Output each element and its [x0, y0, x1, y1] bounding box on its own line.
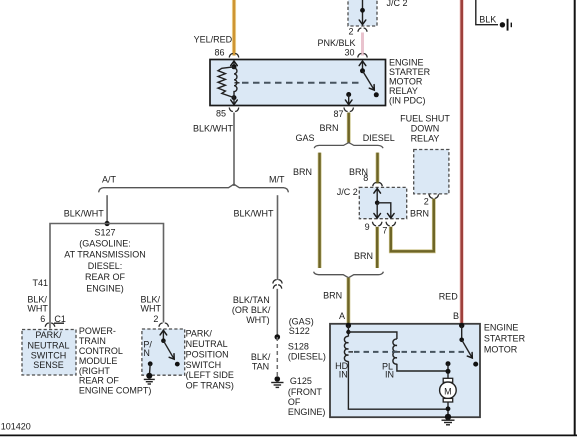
svg-text:BLK/TAN: BLK/TAN: [233, 295, 270, 305]
label ENGINE STARTER MOTOR: [484, 322, 526, 354]
svg-text:ENGINE): ENGINE): [288, 407, 326, 417]
svg-text:BRN: BRN: [323, 291, 342, 301]
svg-text:TAN: TAN: [252, 362, 269, 372]
svg-text:PARK/: PARK/: [35, 330, 62, 340]
svg-text:DIESEL:: DIESEL:: [88, 261, 123, 271]
starter switch from B: [459, 326, 478, 367]
svg-text:GAS: GAS: [295, 133, 314, 143]
svg-text:ENGINE: ENGINE: [389, 57, 424, 67]
label BLK/TAN (lower): [251, 352, 271, 372]
motor M: [440, 378, 457, 417]
label FUEL SHUT DOWN RELAY: [400, 114, 450, 144]
label POWERTRAIN CONTROL MODULE: [79, 326, 152, 396]
svg-text:NEUTRAL: NEUTRAL: [27, 340, 69, 350]
svg-text:MODULE: MODULE: [79, 356, 118, 366]
wire BRN from pin 7 to fuel relay: [391, 199, 434, 252]
svg-text:TRAIN: TRAIN: [79, 336, 106, 346]
svg-text:(OR BLK/: (OR BLK/: [232, 305, 271, 315]
svg-text:(FRONT: (FRONT: [288, 387, 322, 397]
wires inside middle J/C 2: [374, 189, 394, 219]
wire YEL/RED: [232, 0, 236, 56]
ground at starter motor: [442, 414, 455, 425]
svg-text:86: 86: [214, 47, 224, 57]
junction block J/C 2 (top): [348, 0, 377, 26]
P/N switch internals: [148, 330, 180, 376]
svg-text:BRN: BRN: [410, 208, 429, 218]
svg-text:85: 85: [216, 108, 226, 118]
inline connector on M/T wire: [273, 280, 282, 289]
svg-text:G125: G125: [290, 376, 312, 386]
svg-text:A/T: A/T: [102, 174, 117, 184]
svg-text:IN: IN: [385, 370, 394, 380]
svg-text:SWITCH: SWITCH: [31, 351, 67, 361]
connector C1 label: [54, 314, 66, 324]
label S127 block: [64, 227, 146, 293]
junction block J/C 2 (middle): [359, 187, 406, 218]
wire RED: [460, 0, 464, 324]
relay coil: [218, 64, 237, 100]
svg-text:ENGINE): ENGINE): [86, 283, 124, 293]
svg-text:STARTER: STARTER: [389, 67, 431, 77]
svg-text:OF: OF: [288, 397, 301, 407]
park/neutral switch sense box: [22, 330, 76, 376]
svg-text:M: M: [444, 386, 452, 396]
svg-text:BRN: BRN: [354, 251, 373, 261]
relay box: engine starter motor relay: [210, 60, 386, 106]
svg-text:BRN: BRN: [293, 167, 312, 177]
wire BLK/WHT from relay 85: [233, 113, 235, 187]
bottom wire node: [446, 406, 451, 411]
svg-text:FUEL SHUT: FUEL SHUT: [400, 114, 450, 124]
engine starter motor box: [330, 324, 480, 417]
wire BRN from relay 87: [347, 113, 351, 143]
svg-text:(DIESEL): (DIESEL): [288, 352, 326, 362]
splice S122/S128 node: [275, 334, 281, 340]
svg-text:REAR OF: REAR OF: [85, 272, 126, 282]
svg-text:2: 2: [424, 197, 429, 207]
HD coil bottom wire: [348, 361, 448, 409]
connector arc at J/C 2 pin 7: [386, 222, 396, 226]
wire A/T branch: [106, 195, 108, 223]
svg-text:DOWN: DOWN: [411, 124, 440, 134]
svg-text:S122: S122: [289, 326, 310, 336]
svg-text:IN: IN: [339, 370, 348, 380]
label (GAS) S122: [289, 316, 314, 336]
svg-text:2: 2: [348, 27, 353, 37]
splice S127 node: [105, 221, 110, 226]
label PARK/NEUTRAL POSITION SWITCH: [186, 329, 234, 391]
relay pin 87 exit arrow: [345, 92, 352, 105]
svg-text:ENGINE COMPT): ENGINE COMPT): [79, 386, 152, 396]
wire M/T lower: [276, 289, 278, 337]
label BLK/WHT (left column): [27, 295, 48, 314]
svg-text:9: 9: [365, 222, 370, 232]
svg-text:OF TRANS): OF TRANS): [186, 381, 234, 391]
svg-text:(IN PDC): (IN PDC): [389, 95, 426, 105]
svg-text:(RIGHT: (RIGHT: [79, 366, 110, 376]
svg-text:YEL/RED: YEL/RED: [194, 35, 233, 45]
relay switch blade: [360, 68, 379, 97]
svg-text:MOTOR: MOTOR: [484, 344, 518, 354]
svg-text:SWITCH: SWITCH: [186, 360, 222, 370]
wire BLK top right: [476, 0, 498, 25]
label ENGINE STARTER MOTOR RELAY (IN PDC): [389, 57, 431, 105]
svg-text:BLK/: BLK/: [251, 352, 271, 362]
ground at P/N switch: [144, 373, 155, 384]
svg-text:STARTER: STARTER: [484, 333, 526, 343]
label G125 (FRONT OF ENGINE): [288, 376, 326, 417]
svg-text:WHT): WHT): [246, 315, 270, 325]
svg-text:2: 2: [153, 314, 158, 324]
svg-text:M/T: M/T: [269, 174, 285, 184]
svg-text:8: 8: [363, 173, 368, 183]
svg-text:BLK: BLK: [479, 14, 496, 24]
svg-text:REAR OF: REAR OF: [79, 376, 120, 386]
split brace A/T M/T: [99, 184, 289, 192]
svg-text:7: 7: [382, 225, 387, 235]
svg-text:A: A: [339, 311, 345, 321]
dashed wire to G125: [276, 337, 278, 376]
fuel shut down relay box: [414, 150, 449, 194]
splice S127 arms: [50, 224, 164, 329]
connector arc above sense box: [45, 323, 55, 327]
svg-text:T41: T41: [33, 278, 49, 288]
PL coil: [393, 339, 397, 364]
starter internal dashed link: [348, 351, 465, 353]
wire PNK/BLK: [361, 33, 364, 56]
label BLK/WHT (right arm): [141, 295, 162, 314]
svg-text:101420: 101420: [1, 421, 31, 431]
svg-text:BRN: BRN: [319, 123, 338, 133]
label P/N: [143, 340, 152, 359]
relay switch pin 30 entry arrow: [359, 61, 366, 71]
svg-text:AT TRANSMISSION: AT TRANSMISSION: [64, 250, 146, 260]
wire BRN gas branch: [318, 153, 322, 268]
svg-text:J/C 2: J/C 2: [337, 187, 358, 197]
ground BLK (capacitor style): [500, 19, 512, 31]
svg-text:30: 30: [344, 48, 354, 58]
motor feed node: [446, 361, 451, 378]
connector arc below relay pin 87: [344, 108, 354, 112]
starter internal top wiring: [346, 326, 397, 340]
svg-text:S127: S127: [94, 227, 115, 237]
svg-text:RELAY: RELAY: [411, 134, 440, 144]
svg-text:S128: S128: [288, 341, 309, 351]
svg-text:B: B: [453, 311, 459, 321]
connector arc below relay pin 85: [229, 108, 239, 112]
svg-text:(LEFT SIDE: (LEFT SIDE: [186, 370, 234, 380]
label PARK/NEUTRAL SWITCH SENSE: [27, 330, 69, 370]
relay coil exit arrow pin 85: [231, 98, 238, 105]
svg-text:POWER-: POWER-: [79, 326, 116, 336]
svg-text:6: 6: [40, 314, 45, 324]
merge brace to starter: [314, 272, 384, 278]
label S128 (DIESEL): [288, 341, 326, 361]
relay internal dashed link: [235, 82, 362, 84]
svg-text:J/C 2: J/C 2: [387, 0, 408, 8]
svg-text:NEUTRAL: NEUTRAL: [186, 339, 228, 349]
connector arc below top J/C 2: [358, 28, 367, 32]
svg-text:RED: RED: [439, 292, 459, 302]
frame right border: [574, 0, 576, 436]
splice brace GAS / DIESEL: [314, 143, 383, 149]
svg-text:C1: C1: [54, 314, 66, 324]
label PL IN: [382, 361, 394, 379]
svg-text:BLK/WHT: BLK/WHT: [64, 208, 105, 218]
connector arc at relay pin 30: [358, 54, 368, 58]
HD coil: [344, 336, 348, 361]
svg-text:(GASOLINE:: (GASOLINE:: [79, 239, 131, 249]
frame bottom border: [0, 434, 577, 436]
ground G125: [271, 376, 283, 387]
svg-text:PNK/BLK: PNK/BLK: [317, 38, 355, 48]
svg-text:87: 87: [333, 109, 343, 119]
svg-text:CONTROL: CONTROL: [79, 346, 123, 356]
svg-text:SENSE: SENSE: [33, 360, 64, 370]
label HD IN: [335, 361, 348, 380]
svg-text:WHT: WHT: [27, 304, 48, 314]
connector arc at J/C 2 pin 8: [373, 183, 383, 187]
PL coil bottom wire: [397, 364, 448, 371]
wire BRN merged to starter A: [346, 278, 350, 324]
wire M/T branch: [277, 195, 279, 280]
svg-text:DIESEL: DIESEL: [363, 133, 395, 143]
node A: [346, 323, 351, 328]
wire BRN from pin 9: [375, 227, 379, 268]
connector arc above P/N switch box: [159, 323, 169, 327]
connector arc below fuel relay: [429, 194, 439, 198]
svg-text:POSITION: POSITION: [186, 349, 229, 359]
svg-text:BLK/WHT: BLK/WHT: [193, 123, 234, 133]
relay coil entry arrow pin 86: [231, 61, 238, 67]
node B: [459, 323, 464, 328]
label BLK/TAN (OR BLK/WHT): [232, 295, 271, 325]
connector arc at J/C 2 pin 9: [372, 222, 382, 226]
svg-text:PARK/: PARK/: [186, 329, 213, 339]
wire inside top J/C 2: [359, 0, 366, 25]
park/neutral position switch box: [142, 329, 185, 375]
svg-text:N: N: [143, 348, 150, 358]
connector arc at relay pin 86: [229, 54, 239, 58]
svg-text:BLK/WHT: BLK/WHT: [234, 209, 275, 219]
svg-text:ENGINE: ENGINE: [484, 322, 519, 332]
svg-text:WHT: WHT: [141, 304, 162, 314]
wire BRN diesel branch: [376, 153, 380, 184]
svg-text:(GAS): (GAS): [289, 316, 314, 326]
